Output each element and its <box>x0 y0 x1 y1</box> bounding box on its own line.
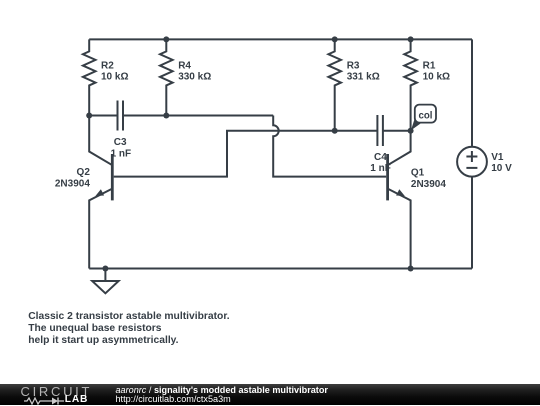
svg-text:R4: R4 <box>178 60 191 71</box>
junction R4 top on supply rail <box>163 36 169 42</box>
junction Q1 collector node col <box>408 128 414 134</box>
wire Q2 collector node to C3 left plate <box>89 115 117 117</box>
svg-text:10 kΩ: 10 kΩ <box>423 72 450 83</box>
junction Q2 collector / R2 / C3 node <box>86 113 92 119</box>
footer url text <box>116 394 231 404</box>
svg-text:10 V: 10 V <box>491 163 512 174</box>
svg-text:10 kΩ: 10 kΩ <box>101 72 128 83</box>
svg-text:330 kΩ: 330 kΩ <box>178 72 211 83</box>
resistor R3 <box>328 39 341 130</box>
junction ground on bottom rail <box>102 266 108 272</box>
svg-text:V1: V1 <box>491 152 504 163</box>
svg-text:col: col <box>419 111 433 122</box>
svg-text:R1: R1 <box>423 60 436 71</box>
resistor R1 <box>404 39 417 130</box>
svg-text:2N3904: 2N3904 <box>411 179 446 190</box>
svg-text:Q2: Q2 <box>77 167 91 178</box>
ground <box>92 269 118 294</box>
CircuitLab logo <box>21 384 93 399</box>
junction R4 bottom / C3 right node <box>163 113 169 119</box>
junction R1 top on supply rail <box>408 36 414 42</box>
resistor R4 <box>160 39 173 115</box>
svg-text:C3: C3 <box>114 137 127 148</box>
footer title text <box>116 385 328 395</box>
voltage source V1 <box>457 39 487 268</box>
transistor Q2 2N3904 (mirrored NPN) <box>89 116 112 269</box>
wire C3 right plate to R4 bottom and corner <box>123 115 273 117</box>
wire C4 right plate to Q1 collector node <box>383 130 411 132</box>
svg-text:R2: R2 <box>101 60 114 71</box>
svg-text:331 kΩ: 331 kΩ <box>347 72 380 83</box>
wire top supply rail <box>89 38 472 40</box>
resistor R2 <box>83 39 96 115</box>
junction R3 top on supply rail <box>332 36 338 42</box>
svg-text:R3: R3 <box>347 60 360 71</box>
capacitor C4 <box>377 115 383 146</box>
wire Q2 base up and right to C4 left plate <box>114 131 378 177</box>
svg-text:C4: C4 <box>374 152 387 163</box>
svg-text:Q1: Q1 <box>411 168 425 179</box>
junction R3 bottom / Q2 base wire node <box>332 128 338 134</box>
transistor Q1 2N3904 (NPN) <box>388 131 411 269</box>
junction Q1 emitter on bottom rail <box>408 266 414 272</box>
wire down to Q1 base with hop over crossing wire <box>273 116 386 177</box>
svg-text:2N3904: 2N3904 <box>55 178 90 189</box>
caption text <box>28 311 229 347</box>
capacitor C3 <box>118 101 124 131</box>
node label col (flag on Q1 collector node) <box>411 105 436 131</box>
wire bottom ground rail <box>89 268 472 270</box>
footer bar <box>0 384 540 406</box>
